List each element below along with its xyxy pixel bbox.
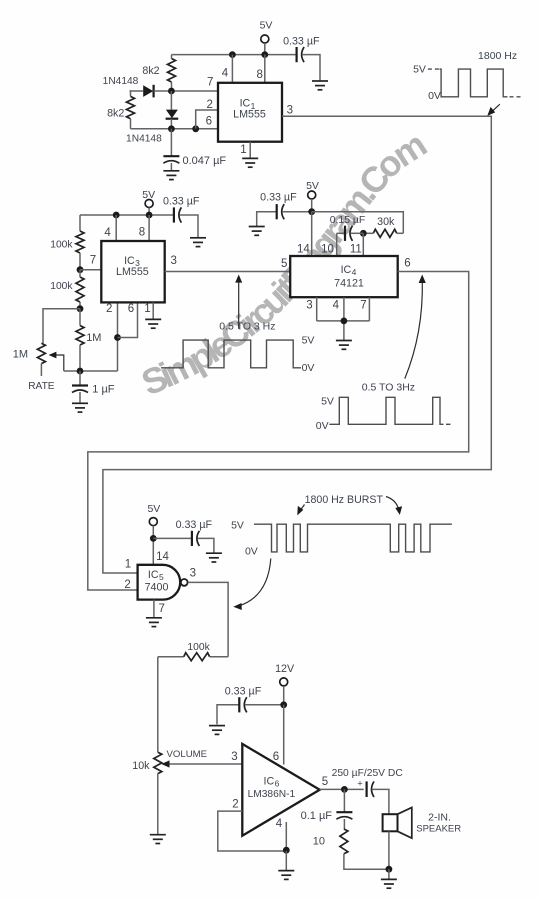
svg-text:1M: 1M: [86, 332, 101, 344]
wire pin 7 of IC5: [153, 600, 155, 618]
svg-text:8: 8: [256, 69, 262, 81]
svg-text:3: 3: [231, 751, 237, 763]
svg-text:LM386N-1: LM386N-1: [248, 789, 296, 800]
svg-text:1: 1: [125, 559, 131, 571]
svg-text:0V: 0V: [245, 545, 258, 557]
svg-text:4: 4: [222, 67, 229, 79]
svg-text:74121: 74121: [334, 277, 364, 289]
wire left rail top: [79, 215, 81, 231]
wire pin 4 of IC6: [285, 822, 287, 851]
svg-text:6: 6: [206, 115, 212, 127]
junction diode node: [168, 88, 175, 95]
wire pin 1 of IC3: [152, 302, 154, 319]
svg-text:LM555: LM555: [233, 108, 266, 120]
junction IC3 5V rail: [146, 212, 153, 219]
svg-text:100k: 100k: [187, 642, 210, 653]
svg-text:2-IN.: 2-IN.: [428, 812, 451, 824]
junction pin5 node: [341, 786, 348, 793]
wire pin 1 of IC1: [249, 142, 251, 159]
svg-text:250 µF/25V DC: 250 µF/25V DC: [332, 768, 404, 779]
wire pin 11 of IC4: [362, 233, 364, 256]
svg-text:0.5 TO 3Hz: 0.5 TO 3Hz: [362, 381, 415, 393]
svg-text:0.15 µF: 0.15 µF: [330, 215, 365, 226]
ground of 1uF cap: [72, 403, 88, 412]
wire pin 7 of IC4: [368, 297, 370, 321]
svg-text:3: 3: [190, 567, 196, 579]
svg-text:1 µF: 1 µF: [92, 383, 115, 395]
svg-text:12V: 12V: [275, 663, 295, 675]
ground of IC5 bypass cap: [206, 553, 222, 562]
ground of IC6: [278, 871, 294, 880]
svg-text:0.1 µF: 0.1 µF: [301, 810, 333, 822]
svg-text:0V: 0V: [428, 90, 441, 102]
svg-text:100k: 100k: [50, 281, 73, 292]
ground of speaker: [381, 879, 397, 888]
svg-text:8k2: 8k2: [142, 65, 159, 77]
junction speaker gnd: [386, 866, 393, 873]
junction IC3 pin4 rail: [113, 212, 120, 219]
svg-text:4: 4: [276, 818, 283, 830]
ground of IC5 pin7: [146, 618, 162, 627]
annotation arrow 1800Hz to wire: [491, 104, 500, 113]
wire gnd stub IC6: [285, 851, 287, 871]
svg-text:2: 2: [124, 579, 130, 591]
wire pin 2 of IC3: [117, 302, 119, 371]
svg-text:3: 3: [306, 300, 312, 312]
wire pin 4 of IC4: [343, 297, 345, 321]
svg-text:0.047 µF: 0.047 µF: [183, 155, 227, 167]
annotation arrow burst to output: [238, 559, 271, 607]
ground of IC6 bypass cap: [209, 726, 225, 735]
op IC6 LM386N-1 amplifier: [242, 744, 319, 836]
svg-text:30k: 30k: [377, 216, 395, 228]
svg-text:2: 2: [206, 99, 212, 111]
svg-text:0.33 µF: 0.33 µF: [176, 519, 213, 531]
wire pin 8 of IC1: [264, 55, 266, 83]
svg-text:14: 14: [156, 551, 169, 563]
svg-text:7: 7: [158, 603, 164, 615]
svg-text:5V: 5V: [147, 503, 160, 515]
svg-text:0.5 TO 3 Hz: 0.5 TO 3 Hz: [219, 321, 275, 333]
junction IC4 gnd rail: [341, 318, 348, 325]
svg-text:7: 7: [207, 77, 213, 89]
svg-text:14: 14: [297, 244, 310, 256]
junction pin2 pin4 gnd: [283, 847, 290, 854]
svg-text:3: 3: [170, 255, 176, 267]
junction pin2 pin6 node: [114, 334, 121, 341]
svg-text:4: 4: [333, 300, 340, 312]
ground of IC1 bypass cap: [312, 81, 328, 90]
wire pin 6 of IC1: [131, 128, 219, 130]
svg-text:4: 4: [104, 227, 111, 239]
svg-text:0V: 0V: [316, 420, 329, 432]
junction IC5 5V node: [150, 535, 157, 542]
annotation arrow burst label left: [300, 505, 305, 512]
wire IC4 ground rail: [317, 320, 370, 322]
wire pin 4 of IC3: [115, 215, 117, 241]
wire 30k feed: [312, 212, 404, 234]
annotation arrow 0.5-3Hz left: [238, 279, 240, 329]
wire top rail: [172, 54, 297, 56]
wire speaker to gnd: [388, 831, 390, 869]
svg-text:10k: 10k: [132, 760, 150, 772]
ground of IC3 bypass cap: [190, 238, 206, 247]
junction pin4 rail: [229, 51, 236, 58]
svg-text:10: 10: [313, 836, 325, 848]
junction 1uF node: [77, 368, 84, 375]
svg-text:1800 Hz: 1800 Hz: [478, 50, 517, 62]
svg-text:8: 8: [139, 226, 145, 238]
junction pot branch node: [77, 305, 84, 312]
ground of IC1 pin1: [242, 158, 258, 167]
svg-text:1800 Hz BURST: 1800 Hz BURST: [305, 494, 384, 506]
svg-text:5V: 5V: [302, 334, 315, 346]
junction pin2 node: [192, 125, 199, 132]
wire pin 10 of IC4: [336, 233, 338, 256]
junction IC4 5V node: [308, 208, 315, 215]
svg-text:2: 2: [106, 303, 112, 315]
svg-text:SPEAKER: SPEAKER: [416, 824, 461, 835]
svg-text:0.33 µF: 0.33 µF: [283, 35, 320, 47]
svg-text:0.33 µF: 0.33 µF: [163, 196, 200, 208]
svg-text:5: 5: [322, 776, 328, 788]
wire volume feed: [157, 657, 159, 753]
wire gnd stub speaker: [388, 869, 390, 879]
junction 12V node: [280, 701, 287, 708]
wire pin 8 of IC3: [148, 215, 150, 241]
wire bottom rail IC3: [64, 370, 118, 372]
wire pin 2 of IC1: [196, 110, 218, 129]
svg-text:5: 5: [281, 258, 287, 270]
wire IC3 top rail: [80, 214, 174, 216]
wire pin 6 of IC6: [283, 705, 285, 765]
svg-text:1N4148: 1N4148: [126, 134, 162, 145]
wire pin 6 of IC3: [118, 302, 138, 337]
svg-text:11: 11: [350, 244, 362, 256]
svg-text:0V: 0V: [302, 362, 315, 374]
svg-text:5V: 5V: [260, 20, 273, 32]
op IC3 LM555 box: [101, 241, 164, 302]
op IC4 74121 box: [290, 256, 398, 297]
svg-text:100k: 100k: [50, 239, 73, 250]
svg-text:8k2: 8k2: [107, 108, 124, 120]
svg-text:VOLUME: VOLUME: [167, 749, 208, 760]
wire pin 3 of IC4: [316, 297, 318, 321]
svg-text:7400: 7400: [145, 581, 169, 593]
junction pin8 rail: [261, 51, 268, 58]
svg-text:5V: 5V: [413, 64, 426, 76]
op IC1 LM555 box: [218, 83, 282, 142]
junction pin7 node: [77, 266, 84, 273]
svg-text:1: 1: [144, 303, 150, 315]
svg-text:2: 2: [232, 799, 238, 811]
svg-text:0.33 µF: 0.33 µF: [260, 191, 297, 203]
annotation arrow 0.5-3Hz right: [405, 280, 423, 379]
svg-text:+: +: [357, 778, 363, 789]
annotation arrow burst label right: [386, 497, 399, 511]
wire pin 14 of IC4: [311, 212, 313, 256]
svg-text:1N4148: 1N4148: [103, 76, 139, 87]
svg-text:7: 7: [90, 255, 96, 267]
ground of IC3 pin1: [145, 319, 161, 328]
svg-text:0.33 µF: 0.33 µF: [225, 686, 262, 698]
ground of 0.047 cap: [163, 171, 179, 180]
wire pin 7 of IC3: [80, 269, 101, 271]
junction pin11 node: [360, 230, 367, 237]
wire pot top branch: [43, 309, 80, 344]
svg-text:3: 3: [287, 104, 293, 116]
svg-text:1M: 1M: [13, 349, 28, 361]
svg-text:10: 10: [321, 244, 334, 256]
ground of IC4: [336, 341, 352, 350]
svg-text:6: 6: [128, 303, 134, 315]
ground of 10k pot: [150, 835, 166, 844]
svg-text:6: 6: [404, 258, 410, 270]
wire pin 4 of IC1: [231, 55, 233, 83]
svg-text:5V: 5V: [231, 520, 244, 532]
svg-text:5V: 5V: [321, 396, 334, 408]
svg-text:1: 1: [240, 144, 246, 156]
junction cap node: [168, 125, 175, 132]
ground of IC4 bypass cap: [249, 227, 265, 236]
svg-text:RATE: RATE: [28, 381, 55, 392]
svg-text:7: 7: [360, 300, 366, 312]
svg-text:LM555: LM555: [116, 266, 149, 278]
